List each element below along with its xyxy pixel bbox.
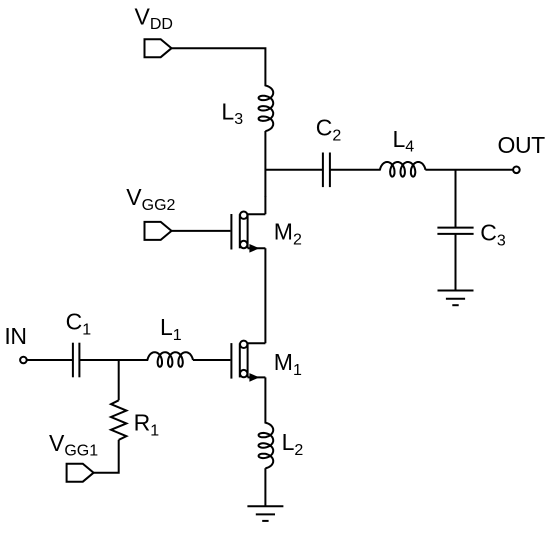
inductor L1 — [148, 352, 193, 367]
wire L3 to M2 drain, node at rail — [264, 131, 266, 197]
wire C3 to ground — [455, 234, 457, 291]
capacitor C1 — [72, 343, 74, 378]
wire node to C3 — [455, 170, 457, 228]
inductor L2 — [259, 423, 274, 468]
svg-text:IN: IN — [4, 323, 26, 349]
port VGG1 flag — [67, 464, 94, 482]
capacitor C3 — [437, 227, 473, 229]
wire R1 to VGG1 — [94, 440, 119, 473]
terminal IN — [20, 357, 27, 364]
wire L2 to ground — [264, 468, 266, 506]
wire C2 to L4 — [330, 169, 381, 171]
wire VGG2 to M2 gate — [172, 230, 231, 232]
wire L1 to M1 gate — [193, 359, 231, 361]
transistor M2 — [230, 214, 232, 250]
wire node to R1 — [118, 360, 120, 400]
wire VDD to L3 — [172, 48, 266, 86]
ground under L2 — [247, 505, 283, 507]
wire M2 drain up — [264, 196, 266, 214]
port VDD flag — [145, 39, 172, 57]
wire C1 to L1, node R1 — [79, 359, 148, 361]
wire L4 to OUT, node at C3 — [425, 169, 513, 171]
wire IN to C1 — [27, 359, 73, 361]
wire M2 source to M1 drain — [264, 248, 266, 343]
inductor L4 — [380, 162, 425, 177]
terminal OUT — [513, 167, 520, 174]
wire node to C2 — [265, 169, 323, 171]
capacitor C2 — [322, 153, 324, 188]
transistor M1 — [230, 343, 232, 379]
port VGG2 flag — [145, 222, 172, 240]
resistor R1 — [111, 400, 126, 440]
ground under C3 — [438, 290, 474, 292]
svg-text:OUT: OUT — [498, 132, 546, 158]
wire M1 source to L2 — [264, 377, 266, 423]
inductor L3 — [259, 86, 274, 131]
